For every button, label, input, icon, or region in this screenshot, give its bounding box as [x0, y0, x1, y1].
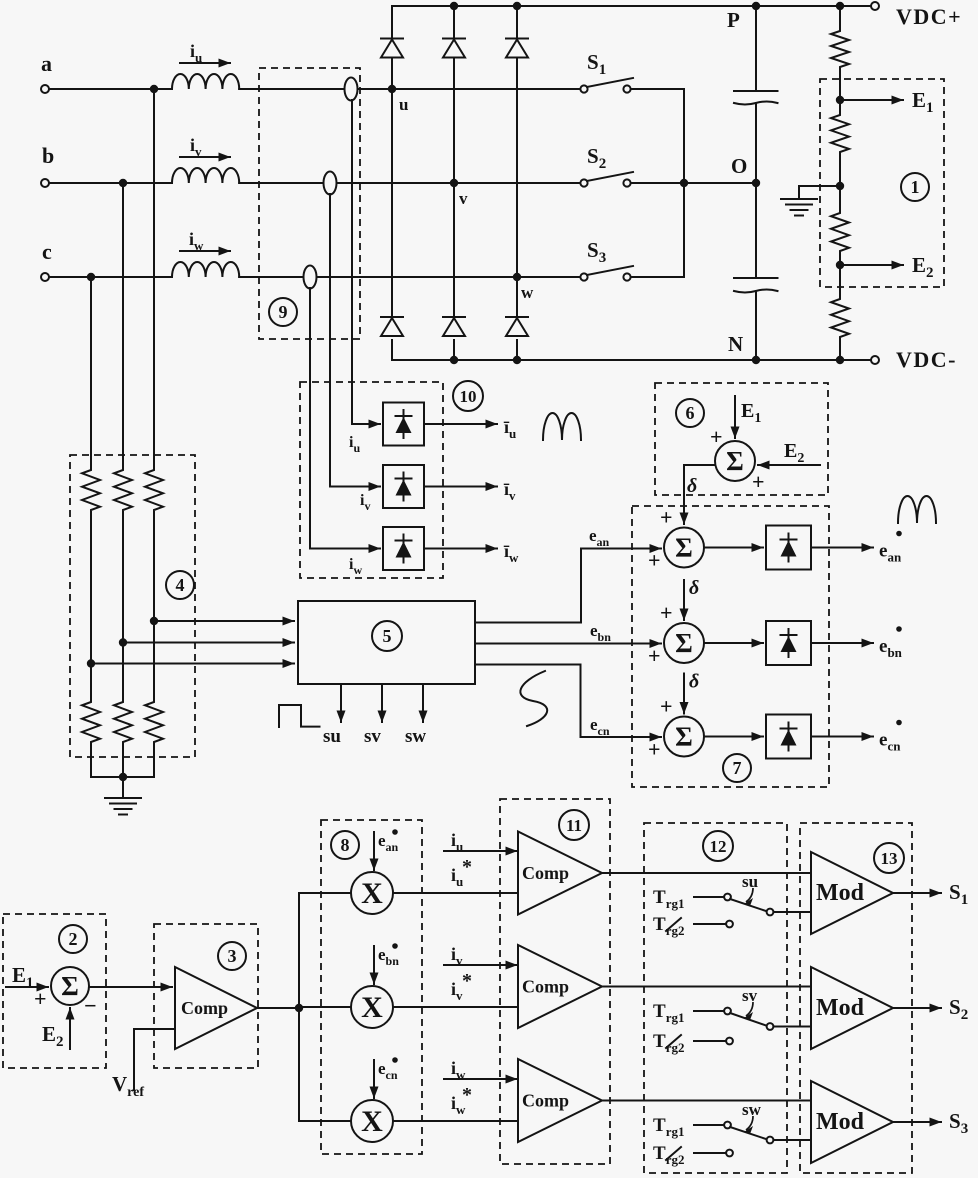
block number 11 — [559, 810, 589, 840]
wire switch common vertical — [683, 89, 685, 277]
resistor divider top Rb1 — [114, 467, 132, 513]
junction N — [752, 356, 760, 364]
resistor R1 — [839, 6, 841, 28]
block number 9 — [269, 298, 297, 326]
svg-text:u: u — [399, 95, 408, 114]
switch Trg2 row1 open — [726, 921, 733, 928]
wire Vref — [133, 1029, 135, 1090]
limiter block bn — [766, 621, 811, 665]
dashed box block 11 — [500, 799, 610, 1164]
block 5 box — [298, 601, 475, 684]
limiter block an — [766, 526, 811, 570]
junction top bus leg w — [513, 2, 521, 10]
junction bottom bus leg v — [450, 356, 458, 364]
wire Trg2 row1 — [694, 923, 726, 925]
wire switch to Mod row1 — [774, 911, 812, 913]
sine squiggle — [520, 671, 547, 726]
modulator Mod1 — [811, 852, 893, 934]
wire S1 output — [893, 892, 941, 894]
comparator Comp1 block11 — [518, 832, 602, 915]
svg-text:+: + — [648, 643, 661, 668]
block number 5 — [372, 621, 402, 651]
wire ebn star into X — [373, 946, 375, 984]
summer sigma ean — [664, 528, 704, 568]
svg-text:N: N — [728, 332, 743, 356]
summer sigma ebn — [664, 623, 704, 663]
node w junction — [513, 273, 521, 281]
capacitor C1 — [734, 90, 778, 92]
wire tap c to block5 — [91, 663, 294, 665]
wire tap c down — [90, 277, 92, 467]
svg-text:sw: sw — [742, 1100, 762, 1119]
abs rectifier block u — [383, 403, 424, 446]
wire E2 arrow — [840, 264, 903, 266]
resistor divider bottom Rb2 — [114, 699, 132, 745]
junction P — [752, 2, 760, 10]
wire su output — [340, 684, 342, 722]
wire phase b — [49, 182, 172, 184]
inductor Lw — [172, 262, 239, 277]
svg-text:δ: δ — [689, 577, 699, 599]
strikethrough Trg2 row3 — [666, 1147, 681, 1160]
pulse symbol — [279, 705, 320, 727]
svg-text:X: X — [361, 991, 383, 1024]
wire Rb1 to tap — [122, 513, 124, 699]
wire ean star into X — [373, 832, 375, 870]
svg-text:P: P — [727, 8, 740, 32]
modulator Mod2 — [811, 967, 893, 1049]
wire delta stub cn — [683, 674, 685, 714]
svg-text:+: + — [648, 737, 661, 762]
junction tap a — [150, 617, 158, 625]
wire DC- bottom bus — [392, 359, 872, 361]
current sensor CTu — [345, 78, 358, 101]
multiplier X v — [351, 986, 393, 1028]
wire Trg1 row2 — [694, 1010, 724, 1012]
comparator Comp2 block11 — [518, 945, 602, 1028]
svg-text:Σ: Σ — [675, 628, 693, 658]
junction E1 tap — [836, 96, 844, 104]
wire output ebn star — [811, 642, 873, 644]
wire bridge leg u — [391, 6, 393, 38]
svg-text:w: w — [521, 283, 534, 302]
svg-text:VDC+: VDC+ — [896, 4, 962, 29]
wire C2 to N — [755, 291, 757, 360]
junction phase a tap — [150, 85, 158, 93]
wire CTw to block10 — [309, 288, 311, 549]
wire tap a to block5 — [154, 620, 294, 622]
block number 12 — [703, 831, 733, 861]
svg-text:−: − — [84, 993, 97, 1018]
switch S2 — [580, 179, 587, 186]
wire comp output — [257, 1007, 299, 1009]
current sensor CTv — [324, 172, 337, 195]
wire sv output — [381, 684, 383, 722]
node b terminal — [41, 179, 49, 187]
block number 7 — [723, 754, 751, 782]
svg-text:7: 7 — [733, 758, 742, 778]
block number 4 — [166, 571, 194, 599]
resistor R2 — [839, 100, 841, 112]
svg-text:+: + — [710, 424, 723, 449]
svg-text:X: X — [361, 1105, 383, 1138]
junction chain top — [836, 2, 844, 10]
svg-text:v: v — [459, 189, 468, 208]
svg-text:Mod: Mod — [816, 1109, 865, 1135]
wire branch vertical — [298, 893, 300, 1121]
svg-text:c: c — [42, 239, 52, 264]
junction divider common — [119, 773, 127, 781]
svg-text:*: * — [462, 856, 472, 878]
wire X output iv star — [393, 1006, 518, 1008]
wire X output iw star — [393, 1120, 518, 1122]
wire E2 into sigma2 — [69, 1008, 71, 1049]
svg-text:Σ: Σ — [61, 971, 79, 1001]
abs rectifier block w — [383, 527, 424, 570]
wire sigma2 to comp — [89, 986, 172, 988]
diode D5 bottom — [443, 316, 465, 318]
svg-text:VDC-: VDC- — [896, 347, 957, 372]
resistor divider top Ra1 — [145, 467, 163, 513]
svg-text:su: su — [323, 726, 341, 747]
junction E2 tap — [836, 261, 844, 269]
wire to ground — [799, 185, 840, 187]
svg-text:12: 12 — [710, 837, 727, 856]
svg-text:Comp: Comp — [522, 1091, 569, 1111]
comparator Comp3 block11 — [518, 1059, 602, 1142]
svg-text:b: b — [42, 143, 54, 168]
dashed box block 7 — [632, 506, 829, 787]
wire phase a — [49, 88, 172, 90]
svg-text:1: 1 — [911, 177, 920, 197]
diode D2 top — [443, 38, 465, 40]
wire sigma to rectifier an — [704, 547, 763, 549]
svg-text:Mod: Mod — [816, 880, 865, 906]
svg-text:δ: δ — [689, 671, 699, 693]
dashed box block 12 — [644, 823, 787, 1173]
svg-text:9: 9 — [279, 302, 288, 322]
switch Trg1 row3 — [724, 1122, 731, 1129]
junction tap b — [119, 638, 127, 646]
wire phase c — [49, 276, 172, 278]
svg-text:sw: sw — [405, 726, 426, 747]
node u junction — [388, 85, 396, 93]
svg-text:+: + — [34, 986, 47, 1011]
resistor divider top Rc1 — [82, 467, 100, 513]
diode D1 top — [381, 38, 403, 40]
diode D6 bottom — [506, 316, 528, 318]
switch Trg2 row3 open — [726, 1150, 733, 1157]
ground symbol block4 — [105, 797, 141, 799]
junction comp output — [295, 1004, 303, 1012]
wire tap a down — [153, 89, 155, 467]
ground symbol block1 — [781, 198, 817, 200]
wire S2 output — [893, 1007, 941, 1009]
wire output iw bar — [424, 548, 497, 550]
junction ground tap — [836, 182, 844, 190]
svg-text:*: * — [462, 1084, 472, 1106]
wire output iu bar — [424, 423, 497, 425]
svg-text:+: + — [752, 469, 765, 494]
curved arrow sw — [746, 1116, 753, 1130]
wire E1 into sigma2 — [6, 986, 48, 988]
wire Ra1 to tap — [153, 513, 155, 699]
wire Rc1 to tap — [90, 513, 92, 699]
wire iv measured — [444, 964, 517, 966]
svg-text:+: + — [648, 548, 661, 573]
dashed box block 10 — [300, 382, 443, 578]
wire switch to Mod row3 — [774, 1139, 812, 1141]
wire Comp1 output — [602, 872, 811, 874]
wire E1 arrow — [840, 99, 903, 101]
svg-text:5: 5 — [383, 626, 392, 646]
block number 8 — [331, 831, 359, 859]
wire to node O — [684, 182, 756, 184]
wire DC+ top bus — [392, 5, 872, 7]
wire branch to X u — [299, 892, 351, 894]
wire Trg1 row1 — [694, 896, 724, 898]
wire bridge leg v — [453, 6, 455, 38]
dashed box block 13 — [800, 823, 912, 1173]
comparator Comp3 — [175, 967, 257, 1049]
svg-text:8: 8 — [341, 835, 350, 855]
node c terminal — [41, 273, 49, 281]
terminal VDC- — [871, 356, 879, 364]
svg-text:O: O — [731, 154, 747, 178]
wire switch to Mod row2 — [774, 1026, 812, 1028]
wire E1 into sigma6 — [734, 396, 736, 438]
dashed box block 1 — [820, 79, 944, 287]
wire divider common join — [91, 776, 154, 778]
svg-text:a: a — [41, 51, 52, 76]
svg-text:2: 2 — [69, 929, 78, 949]
dashed box block 4 — [70, 455, 195, 757]
wire Comp2 output — [602, 986, 811, 988]
strikethrough Trg2 row1 — [666, 918, 681, 931]
block number 2 — [59, 925, 87, 953]
svg-text:sv: sv — [742, 986, 758, 1005]
current sensor CTw — [304, 266, 317, 289]
svg-text:6: 6 — [686, 403, 695, 423]
squiggle M near iu — [543, 413, 581, 440]
wire E2 into sigma6 — [758, 464, 820, 466]
wire Trg2 row2 — [694, 1040, 726, 1042]
switch Trg1 row1 — [724, 894, 731, 901]
dashed box block 6 — [655, 383, 828, 495]
dashed box block 8 — [321, 820, 422, 1154]
wire ecn from block5 — [475, 664, 581, 666]
block number 3 — [218, 942, 246, 970]
junction phase b tap — [119, 179, 127, 187]
junction O — [752, 179, 760, 187]
svg-text:sv: sv — [364, 726, 381, 747]
resistor divider bottom Rc2 — [82, 699, 100, 745]
svg-text:Comp: Comp — [522, 863, 569, 883]
block number 13 — [874, 843, 904, 873]
summer sigma6 — [715, 441, 755, 481]
svg-text:Mod: Mod — [816, 995, 865, 1021]
junction phase c tap — [87, 273, 95, 281]
junction chain bottom — [836, 356, 844, 364]
wire to ground — [122, 777, 124, 798]
switch Trg1 row2 — [724, 1008, 731, 1015]
wire tap b to block5 — [123, 642, 294, 644]
wire S2 to common — [631, 182, 684, 184]
summer sigma2 — [51, 967, 89, 1005]
wire sigma to rectifier bn — [704, 642, 763, 644]
inductor Lv — [172, 168, 239, 183]
wire Rb2 down — [122, 745, 124, 777]
wire delta stub bn — [683, 580, 685, 620]
svg-text:11: 11 — [566, 816, 582, 835]
wire ecn star into X — [373, 1060, 375, 1098]
svg-text:su: su — [742, 872, 758, 891]
wire Trg1 row3 — [694, 1124, 724, 1126]
wire output ecn star — [811, 736, 873, 738]
wire ebn from block5 — [475, 643, 581, 645]
diode D4 bottom — [381, 316, 403, 318]
wire Rc2 down — [90, 745, 92, 777]
dashed box block 3 — [154, 924, 258, 1068]
wire Trg2 row3 — [694, 1152, 726, 1154]
switch S1 — [580, 85, 587, 92]
svg-text:3: 3 — [228, 946, 237, 966]
svg-text:Σ: Σ — [675, 722, 693, 752]
multiplier X w — [351, 1100, 393, 1142]
strikethrough Trg2 row2 — [666, 1035, 681, 1048]
wire tap b down — [122, 183, 124, 467]
wire output iv bar — [424, 486, 497, 488]
wire branch to X v — [299, 1006, 351, 1008]
svg-text:X: X — [361, 877, 383, 910]
capacitor C2 — [734, 277, 778, 279]
svg-text:10: 10 — [460, 387, 477, 406]
svg-text:Comp: Comp — [522, 977, 569, 997]
curved arrow su — [746, 888, 753, 902]
node v junction — [450, 179, 458, 187]
dashed box block 9 — [259, 68, 360, 339]
switch S3 — [580, 273, 587, 280]
svg-text:+: + — [660, 600, 673, 625]
svg-text:+: + — [660, 505, 673, 530]
multiplier X u — [351, 872, 393, 914]
wire sigma to rectifier cn — [704, 736, 763, 738]
wire S1 to common — [631, 88, 684, 90]
wire X output iu star — [393, 892, 518, 894]
junction bottom bus leg w — [513, 356, 521, 364]
svg-text:Σ: Σ — [726, 446, 744, 476]
limiter block cn — [766, 715, 811, 759]
wire capacitor branch upper — [755, 6, 757, 91]
dashed box block 2 — [3, 914, 106, 1068]
junction top bus leg v — [450, 2, 458, 10]
abs rectifier block v — [383, 465, 424, 508]
inductor Lu — [172, 74, 239, 89]
svg-text:Comp: Comp — [181, 998, 228, 1018]
wire S3 output — [893, 1121, 941, 1123]
wire O to C2 — [755, 183, 757, 278]
wire Ra2 down — [153, 745, 155, 777]
summer sigma ecn — [664, 717, 704, 757]
wire CTv to block10 — [329, 194, 331, 487]
diode D3 top — [506, 38, 528, 40]
resistor R4 — [839, 265, 841, 296]
junction switch common at O — [680, 179, 688, 187]
node a terminal — [41, 85, 49, 93]
svg-text:13: 13 — [881, 849, 898, 868]
wire output ean star — [811, 547, 873, 549]
svg-text:*: * — [462, 970, 472, 992]
wire delta output — [684, 464, 715, 466]
wire iu measured — [444, 850, 517, 852]
block number 6 — [676, 399, 704, 427]
wire S3 to common — [631, 276, 684, 278]
svg-text:+: + — [660, 694, 673, 719]
wire CTu to block10 — [351, 100, 353, 424]
svg-text:4: 4 — [176, 575, 185, 595]
wire C1 to O — [755, 103, 757, 183]
wire branch to X w — [299, 1120, 351, 1122]
junction tap c — [87, 659, 95, 667]
wire iw measured — [444, 1078, 517, 1080]
terminal VDC+ — [871, 2, 879, 10]
curved arrow sv — [746, 1002, 753, 1016]
wire ean from block5 — [475, 622, 581, 624]
resistor divider bottom Ra2 — [145, 699, 163, 745]
wire sw output — [422, 684, 424, 722]
modulator Mod3 — [811, 1081, 893, 1163]
switch Trg2 row2 open — [726, 1038, 733, 1045]
wire Comp3 output — [602, 1100, 811, 1102]
wire bridge leg w — [516, 6, 518, 38]
svg-text:Σ: Σ — [675, 533, 693, 563]
squiggle M block7 — [898, 496, 936, 523]
block number 10 — [453, 381, 483, 411]
block number 1 — [901, 173, 929, 201]
resistor R3 — [839, 186, 841, 210]
svg-text:δ: δ — [687, 475, 697, 497]
